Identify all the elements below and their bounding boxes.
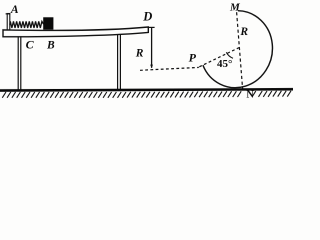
ground hatching (2, 91, 291, 98)
dashed vertical line M-N (237, 12, 243, 88)
table left leg (18, 36, 21, 90)
svg-text:R: R (239, 26, 248, 38)
angle arc (226, 52, 233, 58)
table right leg (118, 35, 121, 90)
svg-text:M: M (229, 2, 241, 14)
svg-text:P: P (189, 51, 197, 65)
wall post A (6, 14, 11, 30)
dashed 45-degree line (199, 47, 240, 67)
svg-text:C: C (26, 37, 35, 51)
ground line (0, 89, 293, 91)
table top slab (3, 27, 148, 37)
block B (black) (43, 17, 53, 29)
spring (10, 21, 44, 28)
svg-text:A: A (10, 4, 19, 16)
circle (cylindrical surface, open arc) (203, 11, 273, 88)
dimension line R (table edge height) (149, 27, 155, 68)
svg-text:B: B (46, 39, 55, 51)
svg-text:N: N (246, 89, 254, 100)
svg-text:R: R (135, 47, 144, 59)
svg-text:45°: 45° (217, 58, 232, 70)
svg-text:D: D (142, 9, 152, 23)
dashed horizontal line to circle (140, 67, 199, 70)
